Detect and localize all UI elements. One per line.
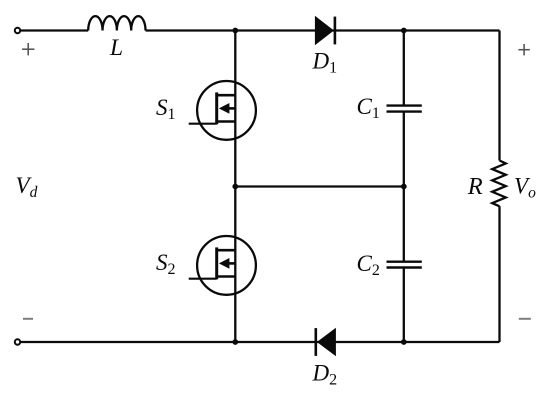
terminal top-left	[15, 28, 20, 33]
svg-text:S1: S1	[156, 95, 176, 123]
inductor L	[88, 16, 145, 30]
capacitor C2	[387, 262, 422, 268]
junction node middle-right	[401, 184, 407, 190]
wire top left	[20, 29, 88, 31]
wire top middle	[146, 29, 500, 31]
resistor R	[492, 161, 506, 207]
wire bottom	[20, 341, 500, 343]
svg-text:S2: S2	[156, 250, 176, 278]
svg-text:Vo: Vo	[514, 173, 536, 201]
junction node bottom-right branch	[401, 339, 407, 345]
junction node top-right branch	[401, 28, 407, 34]
minus sign left	[23, 318, 33, 320]
svg-text:Vd: Vd	[16, 173, 38, 201]
wire middle horizontal	[235, 185, 403, 187]
wire right vertical upper	[498, 31, 500, 161]
svg-text:R: R	[467, 173, 483, 200]
plus sign left	[22, 43, 34, 55]
svg-text:L: L	[109, 35, 123, 61]
plus sign right	[518, 44, 529, 55]
wire left branch vertical	[234, 31, 236, 343]
minus sign right	[519, 318, 531, 320]
wire right vertical lower	[498, 206, 500, 342]
diode D1	[315, 16, 335, 46]
svg-text:C2: C2	[357, 251, 380, 279]
capacitor C1	[387, 106, 422, 112]
mosfet S1	[189, 81, 256, 140]
junction node bottom-left branch	[232, 339, 238, 345]
diode D2	[316, 328, 336, 356]
mosfet S2	[189, 236, 256, 295]
wire right branch vertical upper (top node to C1)	[403, 31, 405, 106]
terminal bottom-left	[15, 339, 20, 344]
junction node middle-left	[232, 184, 238, 190]
junction node top-left branch	[232, 28, 238, 34]
wire right branch vertical lower (C2 to bottom node)	[403, 268, 405, 343]
svg-text:D2: D2	[312, 361, 338, 389]
svg-text:D1: D1	[312, 49, 338, 77]
wire right branch vertical middle (C1 to C2 through middle node)	[403, 112, 405, 262]
svg-text:C1: C1	[357, 94, 380, 122]
